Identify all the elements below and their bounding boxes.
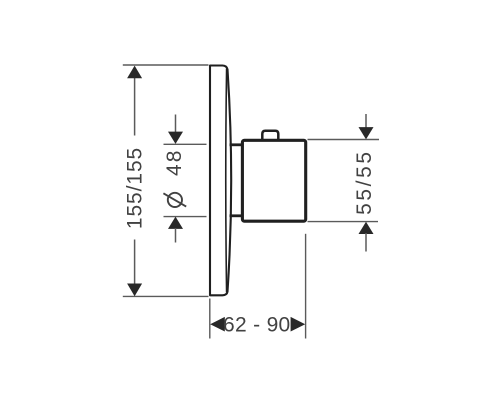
- arrowhead 155 top: [127, 66, 142, 79]
- escutcheon plate (side view): [210, 66, 231, 296]
- dimension line 155/155 upper segment: [134, 76, 136, 136]
- extension line bottom (plate bottom, 155 dim): [123, 295, 209, 297]
- diameter symbol circle: [168, 193, 182, 207]
- thermostat body: [242, 140, 305, 221]
- extension line 62-90 left (wall face): [209, 299, 211, 339]
- diameter 48 lower stub: [175, 228, 177, 243]
- extension line top (plate top, 155 dim): [123, 64, 209, 66]
- diameter symbol slash: [163, 193, 186, 206]
- extension line 55 top (body top): [308, 139, 380, 141]
- arrowhead 55 top (pointing down): [359, 127, 374, 139]
- extension line d48 top: [164, 143, 207, 145]
- dimension line 155/155 lower segment: [134, 240, 136, 286]
- svg-text:155/155: 155/155: [124, 147, 147, 229]
- valve neck top edge: [230, 143, 244, 146]
- extension line 62-90 right (body front): [305, 234, 307, 339]
- 55/55 lower stub: [365, 233, 367, 252]
- arrowhead 62-90 left (pointing left): [210, 317, 225, 332]
- stop button on top of body: [262, 131, 278, 141]
- arrowhead 55 bottom (pointing up): [359, 222, 374, 234]
- diameter 48 upper stub: [175, 115, 177, 133]
- arrowhead d48 bottom (pointing up): [168, 217, 183, 229]
- extension line d48 bottom: [164, 216, 207, 218]
- arrowhead 62-90 right (pointing right): [291, 317, 306, 332]
- svg-text:48: 48: [163, 149, 186, 176]
- plate face inner contour line: [225, 69, 228, 293]
- svg-text:55/55: 55/55: [353, 149, 376, 215]
- arrowhead 155 bottom: [127, 284, 142, 297]
- valve neck bottom edge: [230, 214, 244, 217]
- extension line 55 bottom (body bottom): [308, 221, 379, 223]
- svg-text:62 - 90: 62 - 90: [223, 314, 290, 337]
- arrowhead d48 top (pointing down): [168, 132, 183, 144]
- 55/55 upper stub: [365, 114, 367, 128]
